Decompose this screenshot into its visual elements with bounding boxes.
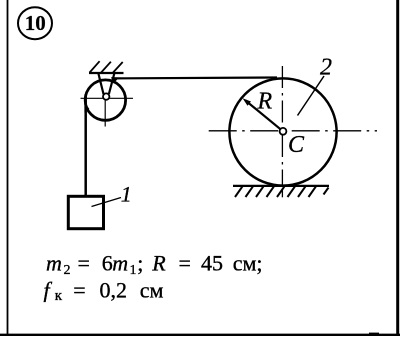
svg-text:45: 45	[201, 250, 223, 275]
pulley centerline horizontal	[81, 97, 134, 99]
rope junction wedge at pulley	[111, 77, 119, 83]
ground hatch 4	[267, 186, 275, 197]
svg-text:0,2: 0,2	[100, 277, 128, 302]
svg-text:f: f	[44, 277, 53, 302]
svg-text:10: 10	[25, 11, 46, 35]
ground hatch 1	[235, 186, 243, 197]
radius line R with arrowhead	[246, 101, 281, 129]
svg-text:1: 1	[121, 182, 132, 207]
wheel centerline horizontal (dash-dot)	[209, 130, 377, 132]
ground hatch 7	[298, 186, 306, 197]
svg-text:6: 6	[102, 250, 113, 275]
problem number circle badge 10	[18, 7, 52, 39]
ground hatch 9 (short)	[324, 188, 329, 195]
ground hatch 2	[246, 186, 254, 197]
svg-text:к: к	[55, 288, 63, 304]
bottom border thick spot	[369, 333, 379, 335]
svg-text:=: =	[73, 277, 85, 302]
svg-text:=: =	[78, 250, 90, 275]
wheel centerline vertical (dash-dot)	[281, 66, 283, 186]
ground hatch 8	[309, 186, 317, 197]
ground hatch 5	[277, 186, 285, 197]
wheel 2 (disk)	[229, 78, 336, 185]
pulley axle	[103, 93, 109, 99]
block load 1	[68, 196, 103, 228]
svg-text:=: =	[179, 250, 191, 275]
ground line under wheel	[233, 185, 329, 187]
svg-text:см;: см;	[233, 250, 263, 275]
ceiling support line	[89, 72, 124, 74]
wheel centerline vertical below ground	[281, 189, 283, 198]
ceiling hatch 3	[113, 62, 123, 73]
svg-text:m: m	[46, 250, 62, 275]
pulley centerline vertical	[104, 93, 106, 127]
ground hatch 3	[256, 186, 264, 197]
rope junction wedge left of pulley	[84, 102, 89, 112]
svg-text:;: ;	[137, 250, 143, 275]
given data text line 2	[44, 277, 164, 304]
leader line to label 2	[298, 76, 325, 116]
rope horizontal segment	[112, 76, 277, 79]
ceiling hatch 1	[90, 61, 100, 72]
svg-text:C: C	[288, 132, 305, 158]
pulley bracket left arm	[98, 74, 103, 95]
wheel hub center C	[280, 128, 287, 135]
svg-text:2: 2	[64, 263, 71, 278]
svg-text:R: R	[257, 89, 273, 115]
given data text line 1	[46, 250, 263, 278]
svg-text:2: 2	[320, 55, 332, 81]
svg-text:см: см	[140, 277, 164, 302]
leader line to label 1	[92, 198, 122, 207]
svg-text:R: R	[151, 250, 166, 275]
svg-text:m: m	[112, 250, 128, 275]
rope vertical segment	[84, 94, 87, 196]
pulley bracket right arm	[109, 74, 114, 95]
frame bottom border line	[0, 334, 400, 336]
frame left border line	[7, 0, 9, 335]
frame right border line	[396, 0, 399, 336]
ceiling hatch 2	[101, 62, 111, 73]
svg-text:1: 1	[130, 263, 137, 278]
ground hatch 6	[288, 186, 296, 197]
pulley wheel	[85, 80, 125, 120]
